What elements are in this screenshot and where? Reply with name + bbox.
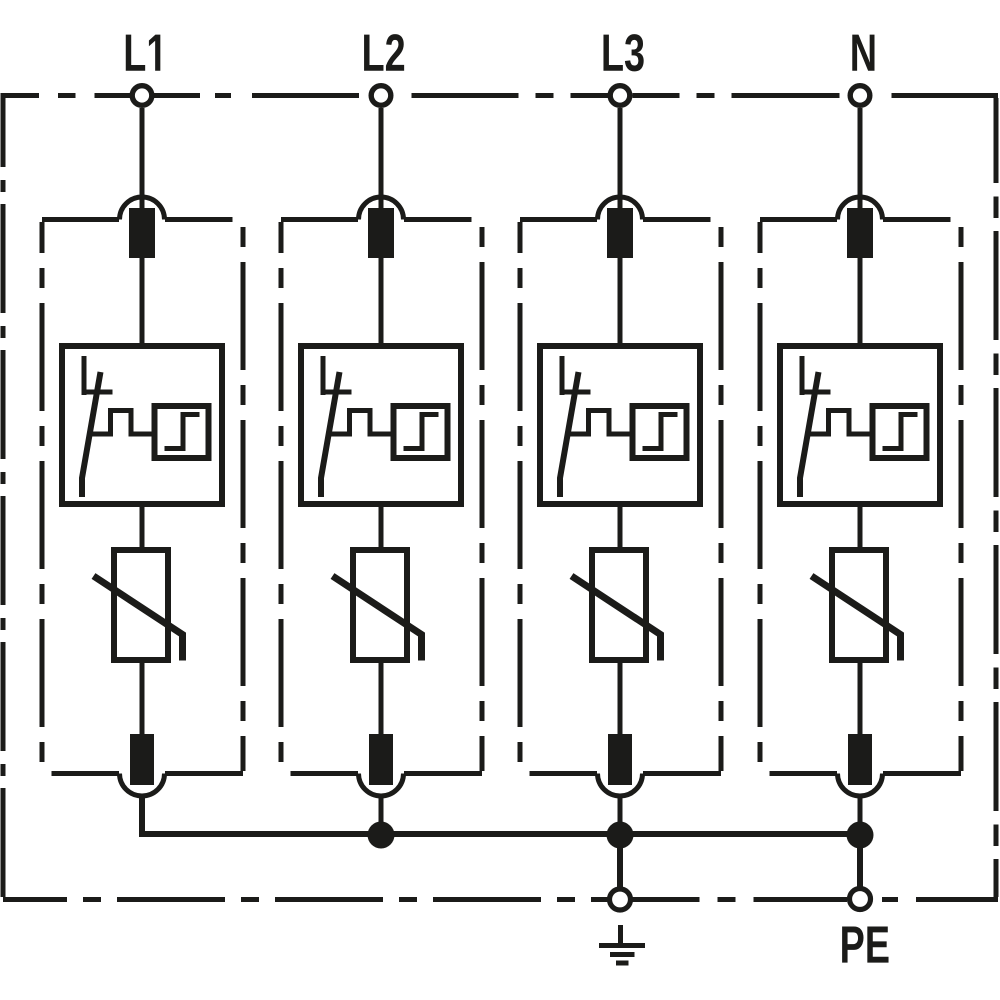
wire L1 disconnector to varistor [140, 504, 145, 550]
plug-in terminal top L1: contact bar [129, 208, 155, 258]
enclosure border: top edge [1, 93, 131, 98]
SPD module box N: left edge [758, 222, 763, 771]
enclosure border: left edge [1, 98, 6, 897]
terminal circle L2 [371, 86, 391, 106]
junction dot L2/bus [368, 822, 395, 849]
SPD module box L1: right edge [241, 222, 246, 771]
pulse step symbol L2 [404, 415, 439, 449]
SPD module box L3: left edge [518, 222, 523, 771]
ground symbol: bar 1 [599, 943, 645, 948]
SPD module box L3: top edge [520, 217, 597, 222]
wire bus to PE terminal [857, 835, 863, 889]
wire N terminal to plug [858, 108, 863, 212]
plug-in terminal top L1: arc [120, 197, 165, 219]
plug-in terminal bottom N: arc [838, 774, 883, 797]
node PE label [842, 926, 888, 962]
plug-in terminal bottom L1: arc [120, 774, 165, 797]
wire L2 plug to disconnector box [379, 258, 384, 346]
plug-in terminal top L3: arc [598, 197, 643, 219]
wire L2 varistor to bottom plug [379, 660, 384, 740]
wire L2 disconnector to varistor [379, 504, 384, 550]
SPD module box L3: right edge [719, 222, 724, 771]
thermal disconnect switch N: blade [800, 372, 819, 497]
SPD module box L2: right edge [480, 222, 485, 771]
thermal disconnect switch L2: blade [321, 372, 340, 497]
wire L3 varistor to bottom plug [618, 660, 623, 740]
pulse step symbol L3 [643, 415, 678, 449]
wire L1 plug to disconnector box [140, 258, 145, 346]
monitoring pulse box L1 [155, 406, 209, 458]
plug-in terminal top L2: contact bar [368, 208, 394, 258]
enclosure border: right edge [994, 98, 999, 897]
varistor L1: diagonal [94, 576, 183, 661]
PE terminal circle [850, 889, 871, 910]
ground symbol: bar 3 [616, 961, 629, 966]
wire L3 plug to disconnector box [618, 258, 623, 346]
monitoring square-wave link L2 [331, 411, 393, 435]
SPD module box L2: bottom edge [291, 771, 359, 776]
thermal disconnect switch L1: blade [82, 372, 101, 497]
node N label [852, 35, 874, 71]
thermal disconnect switch L1: fixed contact [82, 356, 87, 395]
plug-in terminal bottom N: contact bar [848, 734, 872, 785]
monitoring square-wave link L3 [570, 411, 632, 435]
plug-in terminal bottom L3: arc [598, 774, 643, 797]
wire L1 bottom plug to PE bus [140, 794, 145, 836]
junction dot N/bus [847, 822, 874, 849]
thermal disconnect switch N: fixed contact [800, 356, 805, 395]
plug-in terminal bottom L2: contact bar [369, 734, 393, 785]
monitoring pulse box N [873, 406, 927, 458]
wire L2 terminal to plug [379, 108, 384, 212]
varistor L2: body [353, 550, 407, 660]
node L3 label [603, 34, 643, 71]
varistor L1: body [114, 550, 168, 660]
pulse step symbol N [883, 415, 918, 449]
plug-in terminal top L3: contact bar [607, 208, 633, 258]
ground symbol: stem [618, 925, 623, 946]
SPD module box L1: left edge [40, 222, 45, 771]
thermal disconnect switch L1: contact bar [82, 390, 113, 395]
wire bus to ground terminal [617, 835, 623, 889]
enclosure border: bottom edge [3, 897, 610, 902]
wire N varistor to bottom plug [858, 660, 863, 740]
thermal disconnect switch L2: contact bar [321, 390, 352, 395]
SPD module box N: bottom edge [770, 771, 838, 776]
node L2 label [364, 34, 404, 71]
PE bus wire [142, 797, 860, 834]
monitoring pulse box L3 [633, 406, 687, 458]
pulse step symbol L1 [165, 415, 200, 449]
plug-in terminal top N: contact bar [847, 208, 873, 258]
varistor N: diagonal [812, 576, 901, 661]
disconnector/monitoring box L1 [62, 346, 222, 504]
plug-in terminal top L2: arc [359, 197, 404, 219]
ground terminal circle [610, 889, 631, 910]
SPD module box L3: bottom edge [530, 771, 598, 776]
terminal circle L3 [610, 86, 630, 106]
monitoring pulse box L2 [394, 406, 448, 458]
varistor L3: body [592, 550, 646, 660]
node L1 label [126, 35, 161, 71]
wire L1 terminal to plug [140, 108, 145, 212]
monitoring square-wave link L1 [92, 411, 154, 435]
wire L3 bottom plug to PE bus [618, 794, 623, 836]
thermal disconnect switch N: contact bar [800, 390, 831, 395]
SPD module box L1: bottom edge [52, 771, 120, 776]
thermal disconnect switch L3: contact bar [560, 390, 591, 395]
plug-in terminal bottom L1: contact bar [130, 734, 154, 785]
disconnector/monitoring box N [780, 346, 940, 504]
monitoring square-wave link N [810, 411, 872, 435]
wire L1 varistor to bottom plug [140, 660, 145, 740]
wire N plug to disconnector box [858, 258, 863, 346]
SPD module box L2: top edge [281, 217, 358, 222]
varistor L3: diagonal [572, 576, 661, 661]
SPD module box N: right edge [959, 222, 964, 771]
wire N bottom plug to PE bus [858, 794, 863, 836]
SPD module box L2: left edge [279, 222, 284, 771]
thermal disconnect switch L2: fixed contact [321, 356, 326, 395]
ground symbol: bar 2 [610, 952, 635, 957]
thermal disconnect switch L3: blade [560, 372, 579, 497]
SPD module box N: top edge [760, 217, 837, 222]
plug-in terminal top N: arc [838, 197, 883, 219]
plug-in terminal bottom L3: contact bar [608, 734, 632, 785]
terminal circle N [850, 86, 870, 106]
terminal circle L1 [132, 86, 152, 106]
disconnector/monitoring box L3 [540, 346, 700, 504]
wire L3 disconnector to varistor [618, 504, 623, 550]
wire L3 terminal to plug [618, 108, 623, 212]
varistor L2: diagonal [333, 576, 422, 661]
wire L2 bottom plug to PE bus [379, 794, 384, 836]
disconnector/monitoring box L2 [301, 346, 461, 504]
varistor N: body [832, 550, 886, 660]
SPD module box L1: top edge [42, 217, 119, 222]
thermal disconnect switch L3: fixed contact [560, 356, 565, 395]
plug-in terminal bottom L2: arc [359, 774, 404, 797]
junction dot L3/bus [607, 822, 634, 849]
wire N disconnector to varistor [858, 504, 863, 550]
